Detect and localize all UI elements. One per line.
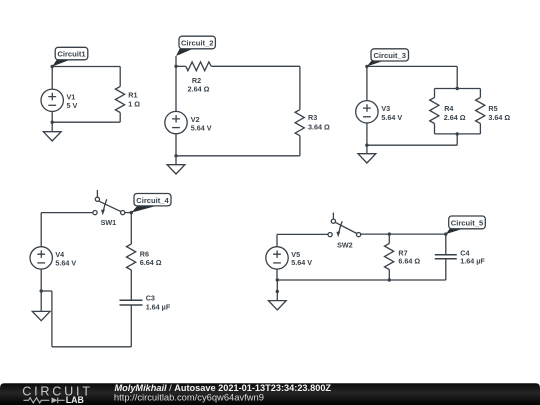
svg-text:5.64 V: 5.64 V xyxy=(381,113,402,122)
capacitor C3 xyxy=(120,300,143,305)
node parallel top xyxy=(456,87,459,90)
voltage source V5 xyxy=(266,247,288,269)
svg-text:6.64 Ω: 6.64 Ω xyxy=(398,257,420,266)
wire switch to node xyxy=(125,212,132,214)
wire R5 top lead xyxy=(479,89,481,98)
wire C3 down xyxy=(130,305,132,347)
svg-text:R3: R3 xyxy=(308,113,317,122)
svg-text:Circuit1: Circuit1 xyxy=(57,50,86,59)
wire V4 top lead xyxy=(40,213,42,248)
wire R2 to corner xyxy=(211,65,300,67)
svg-text:http://circuitlab.com/cy6qw64a: http://circuitlab.com/cy6qw64avfwn9 xyxy=(114,392,264,403)
svg-text:Circuit_5: Circuit_5 xyxy=(451,219,484,228)
node R7 top xyxy=(388,232,391,235)
label flag Circuit_4 xyxy=(131,194,171,213)
wire right lower xyxy=(119,113,121,123)
wire V3 bottom lead xyxy=(366,122,368,145)
wire V2 top lead xyxy=(175,66,177,112)
node R7 bottom xyxy=(388,278,391,281)
resistor R1 xyxy=(115,87,124,113)
svg-text:6.64 Ω: 6.64 Ω xyxy=(140,258,162,267)
node flag attach xyxy=(444,232,447,235)
node bottom-left xyxy=(365,144,368,147)
wire bottom xyxy=(52,346,131,348)
node top-left xyxy=(174,65,177,68)
svg-text:1.64 µF: 1.64 µF xyxy=(146,303,171,312)
svg-text:5.64 V: 5.64 V xyxy=(191,123,212,132)
wire top left (circuit 4) xyxy=(41,212,93,214)
wire node to R6 xyxy=(130,213,132,244)
logo resistor-diode symbol xyxy=(24,397,65,403)
svg-text:5.64 V: 5.64 V xyxy=(55,258,76,267)
wire bottom left vertical xyxy=(51,291,53,347)
ground xyxy=(268,301,286,310)
ground xyxy=(32,311,50,320)
wire R6 to C3 xyxy=(130,270,132,300)
resistor R4 xyxy=(430,98,439,124)
voltage source V4 xyxy=(30,247,52,269)
wire ground stub xyxy=(175,156,177,165)
wire right upper xyxy=(119,67,121,87)
wire V5 bottom lead xyxy=(276,269,278,281)
wire R7 top lead xyxy=(388,234,390,243)
wire top (circuit 3) xyxy=(367,65,457,67)
node ground junction xyxy=(40,289,43,292)
node top-left xyxy=(365,65,368,68)
resistor R3 xyxy=(295,110,304,136)
wire top (circuit 1) xyxy=(52,66,120,68)
svg-text:Circuit_3: Circuit_3 xyxy=(373,51,406,60)
wire R4 bottom lead xyxy=(434,124,436,134)
node top-left xyxy=(51,65,54,68)
svg-text:2.64 Ω: 2.64 Ω xyxy=(188,84,210,93)
node bottom-left xyxy=(276,278,279,281)
svg-text:3.64 Ω: 3.64 Ω xyxy=(488,113,510,122)
svg-text:SW2: SW2 xyxy=(337,241,353,250)
node flag attach xyxy=(130,211,133,214)
wire right lower xyxy=(299,136,301,156)
svg-text:SW1: SW1 xyxy=(101,218,117,227)
wire parallel bottom bar xyxy=(435,133,481,135)
svg-text:2.64 Ω: 2.64 Ω xyxy=(444,113,466,122)
label flag Circuit1 xyxy=(52,47,88,66)
wire bottom xyxy=(52,121,120,123)
wire top left (circuit 5) xyxy=(277,233,328,235)
voltage source V2 xyxy=(165,111,187,133)
wire bottom xyxy=(277,279,446,281)
wire ground stub xyxy=(51,122,53,132)
resistor R6 xyxy=(127,244,136,270)
wire R4 top lead xyxy=(434,89,436,98)
resistor R7 xyxy=(385,244,394,270)
node ground stub xyxy=(276,290,279,293)
label flag Circuit_2 xyxy=(176,36,215,66)
wire ground stub xyxy=(276,280,278,301)
ground xyxy=(358,154,376,163)
svg-text:C3: C3 xyxy=(146,294,155,303)
wire to ground node xyxy=(41,290,52,292)
wire down from parallel xyxy=(456,134,458,145)
svg-text:Circuit_4: Circuit_4 xyxy=(136,196,169,205)
label flag Circuit_3 xyxy=(367,49,409,67)
wire right upper xyxy=(299,66,301,109)
switch SW2 xyxy=(328,213,361,238)
wire C4 top lead xyxy=(445,234,447,255)
svg-text:5 V: 5 V xyxy=(67,101,78,110)
wire ground stub xyxy=(40,291,42,311)
svg-text:3.64 Ω: 3.64 Ω xyxy=(308,122,330,131)
wire switch to C4 node xyxy=(361,233,446,235)
wire down to parallel junction xyxy=(456,66,458,88)
ground xyxy=(167,165,185,174)
voltage source V1 xyxy=(41,89,63,111)
wire R7 bottom lead xyxy=(388,270,390,281)
resistor R2 xyxy=(186,62,212,71)
wire node to R2 xyxy=(176,65,186,67)
ground xyxy=(43,132,61,141)
node bottom-left xyxy=(51,121,54,124)
wire parallel top bar xyxy=(435,88,481,90)
capacitor C4 xyxy=(435,255,457,259)
node bottom-left xyxy=(174,154,177,157)
wire V4 bottom lead xyxy=(40,269,42,292)
wire R5 bottom lead xyxy=(479,124,481,134)
wire C4 bottom lead xyxy=(445,259,447,280)
label flag Circuit_5 xyxy=(446,216,486,234)
wire V5 top lead xyxy=(276,234,278,247)
wire bottom xyxy=(367,144,457,146)
wire V1 bottom lead xyxy=(51,111,53,122)
wire V1 top lead xyxy=(51,67,53,90)
svg-text:Circuit_2: Circuit_2 xyxy=(181,39,214,48)
switch SW1 xyxy=(93,190,125,215)
wire V3 top lead xyxy=(366,66,368,101)
svg-text:5.64 V: 5.64 V xyxy=(291,258,312,267)
resistor R5 xyxy=(476,98,485,124)
svg-text:1.64 µF: 1.64 µF xyxy=(460,257,485,266)
wire ground stub xyxy=(366,145,368,154)
voltage source V3 xyxy=(356,101,378,123)
svg-text:1 Ω: 1 Ω xyxy=(128,100,140,109)
svg-text:R1: R1 xyxy=(128,91,137,100)
svg-text:LAB: LAB xyxy=(66,395,84,405)
wire bottom xyxy=(176,155,300,157)
wire V2 bottom lead xyxy=(175,133,177,156)
node parallel bottom xyxy=(456,132,459,135)
